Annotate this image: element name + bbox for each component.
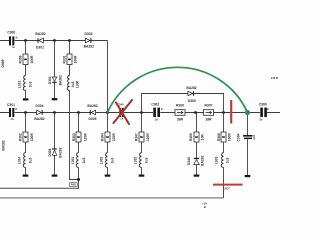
svg-text:1n: 1n bbox=[12, 45, 15, 49]
svg-text:BA282: BA282 bbox=[34, 117, 44, 121]
node junction mid rail x107 (arc start) bbox=[106, 111, 109, 114]
ground (D308 chain) bbox=[52, 155, 58, 176]
resistor R301 bbox=[62, 41, 77, 65]
wire mid rail bbox=[0, 112, 280, 114]
svg-text:L303: L303 bbox=[215, 157, 219, 165]
wire bottom PW1 net bbox=[0, 187, 79, 189]
svg-text:D305: D305 bbox=[89, 117, 97, 121]
node junction top rail x54 bbox=[53, 39, 56, 42]
svg-text:R363: R363 bbox=[72, 133, 76, 141]
svg-text:ACT: ACT bbox=[224, 187, 230, 191]
capacitor C301 bbox=[7, 103, 17, 121]
svg-text:R301: R301 bbox=[62, 55, 66, 63]
svg-text:D999: D999 bbox=[1, 59, 5, 67]
svg-text:R307: R307 bbox=[205, 103, 213, 107]
svg-text:L314: L314 bbox=[18, 157, 22, 165]
svg-text:BA282: BA282 bbox=[84, 45, 94, 49]
svg-text:39R: 39R bbox=[177, 118, 184, 122]
ground (C304 chain) bbox=[245, 139, 251, 177]
svg-text:120R: 120R bbox=[30, 133, 34, 142]
svg-text:D340: D340 bbox=[187, 157, 191, 165]
green highlight arc bbox=[108, 67, 248, 112]
svg-text:K: K bbox=[15, 107, 17, 111]
svg-text:3u3: 3u3 bbox=[71, 81, 75, 87]
ground (L315 chain) bbox=[139, 167, 145, 177]
wire L303 chain down to bottom bus bbox=[223, 167, 225, 198]
diode D305 bbox=[87, 104, 97, 121]
red ACT line annotation bbox=[213, 184, 243, 186]
diode D308 bbox=[48, 113, 62, 158]
node junction top rail x25 bbox=[24, 39, 27, 42]
capacitor C340 (crossed out) bbox=[117, 103, 124, 121]
svg-text:L300: L300 bbox=[75, 81, 79, 89]
inductor L300 bbox=[67, 65, 79, 91]
inductor L302 bbox=[100, 142, 115, 167]
svg-text:C300: C300 bbox=[7, 31, 15, 35]
svg-text:3u3: 3u3 bbox=[82, 157, 86, 163]
ground (L314 chain) bbox=[23, 167, 29, 177]
node junction top rail x69 bbox=[68, 39, 71, 42]
svg-text:R366: R366 bbox=[217, 133, 221, 141]
label box PW1 bbox=[70, 183, 78, 187]
resistor R364 bbox=[101, 113, 116, 143]
capacitor C306 bbox=[259, 102, 269, 121]
svg-text:L301: L301 bbox=[71, 157, 75, 165]
svg-text:+1A: +1A bbox=[202, 202, 207, 206]
inductor L314 bbox=[18, 142, 33, 167]
svg-text:BA282: BA282 bbox=[59, 75, 63, 85]
svg-text:D303: D303 bbox=[85, 32, 93, 36]
node junction mid rail x79 bbox=[77, 111, 80, 114]
svg-text:C301: C301 bbox=[7, 103, 15, 107]
svg-text:C304: C304 bbox=[237, 133, 241, 141]
svg-text:C302: C302 bbox=[151, 103, 159, 107]
svg-text:K: K bbox=[16, 35, 18, 39]
svg-text:L313: L313 bbox=[18, 81, 22, 89]
svg-text:2n: 2n bbox=[259, 118, 262, 122]
wire bypass bridge bbox=[142, 94, 224, 113]
svg-text:1n: 1n bbox=[120, 117, 123, 121]
diode D302 bbox=[48, 41, 62, 86]
wire bottom ACT net bbox=[0, 197, 224, 199]
svg-text:3u3: 3u3 bbox=[145, 157, 149, 163]
svg-text:R365: R365 bbox=[189, 133, 193, 141]
node junction mid rail x141 bbox=[140, 111, 143, 114]
svg-text:BA282: BA282 bbox=[58, 147, 62, 157]
svg-text:K: K bbox=[161, 107, 163, 111]
svg-text:L315: L315 bbox=[134, 157, 138, 165]
node junction mid rail x54 bbox=[53, 111, 56, 114]
resistor R366 bbox=[217, 113, 231, 143]
capacitor C304 bbox=[243, 113, 256, 140]
svg-text:3u3: 3u3 bbox=[28, 81, 32, 87]
svg-text:C306: C306 bbox=[259, 102, 267, 106]
diode D301 bbox=[35, 32, 45, 49]
ground (L302 chain) bbox=[105, 167, 111, 177]
svg-text:D301: D301 bbox=[36, 45, 44, 49]
inductor L313 bbox=[18, 65, 33, 91]
svg-text:D309: D309 bbox=[188, 99, 196, 103]
node junction mid rail x247 (arc end) bbox=[246, 111, 249, 114]
inductor L301 bbox=[71, 142, 86, 167]
wire long vertical x69 down to PW1 corner bbox=[70, 90, 79, 179]
red bar annotation bbox=[230, 100, 232, 124]
resistor R365 bbox=[189, 113, 204, 143]
svg-text:2n2: 2n2 bbox=[252, 135, 256, 140]
svg-text:100R: 100R bbox=[74, 55, 78, 64]
svg-text:D308: D308 bbox=[48, 148, 52, 156]
node junction mid rail x195 bbox=[194, 111, 197, 114]
svg-text:BA282: BA282 bbox=[186, 86, 196, 90]
svg-text:100R: 100R bbox=[30, 55, 34, 64]
ground (D340 chain) bbox=[194, 165, 200, 177]
ground (D302 chain) bbox=[52, 83, 58, 100]
svg-text:BA282: BA282 bbox=[200, 155, 204, 165]
svg-text:120R: 120R bbox=[112, 133, 116, 142]
svg-text:L302: L302 bbox=[100, 157, 104, 165]
svg-text:39R: 39R bbox=[205, 118, 212, 122]
svg-text:BA282: BA282 bbox=[1, 140, 5, 150]
diode D303 bbox=[84, 32, 94, 49]
svg-text:3u3: 3u3 bbox=[226, 157, 230, 163]
svg-text:R347: R347 bbox=[135, 133, 139, 141]
svg-text:R306: R306 bbox=[176, 103, 184, 107]
diode D340 bbox=[187, 142, 204, 166]
svg-text:D304: D304 bbox=[36, 104, 44, 108]
svg-text:2-B D: 2-B D bbox=[271, 76, 278, 80]
svg-text:B: B bbox=[204, 205, 206, 209]
diode D309 bbox=[186, 86, 196, 103]
inductor L303 bbox=[215, 142, 230, 167]
node junction PW1 corner bbox=[77, 178, 80, 181]
wire top rail bbox=[0, 40, 108, 42]
capacitor C302 bbox=[151, 103, 163, 122]
svg-text:3u3: 3u3 bbox=[29, 157, 33, 163]
green arc end dot bbox=[245, 110, 250, 115]
svg-text:120R: 120R bbox=[84, 133, 88, 142]
capacitor C300 bbox=[7, 31, 17, 50]
resistor R309 bbox=[19, 41, 34, 65]
ground (top-left chain) bbox=[23, 90, 29, 100]
node junction mid rail x25 bbox=[24, 111, 27, 114]
resistor R306 bbox=[175, 103, 185, 121]
diode D304 bbox=[34, 104, 44, 121]
svg-text:R362: R362 bbox=[19, 133, 23, 141]
svg-text:100R: 100R bbox=[228, 133, 232, 142]
svg-text:1n: 1n bbox=[10, 117, 13, 121]
resistor R307 bbox=[204, 103, 214, 121]
svg-text:D302: D302 bbox=[48, 76, 52, 84]
svg-text:120R: 120R bbox=[146, 133, 150, 142]
node junction mid rail x223 bbox=[222, 111, 225, 114]
svg-text:10R: 10R bbox=[201, 134, 205, 141]
svg-text:K: K bbox=[267, 107, 269, 111]
svg-text:BA282: BA282 bbox=[87, 104, 97, 108]
resistor R347 bbox=[135, 113, 150, 143]
wire vertical from top rail corner down to mid rail bbox=[107, 41, 109, 113]
red X annotation over C340 bbox=[114, 100, 133, 124]
svg-text:PW1: PW1 bbox=[71, 184, 77, 187]
svg-text:R364: R364 bbox=[101, 133, 105, 141]
svg-text:3u3: 3u3 bbox=[111, 157, 115, 163]
svg-text:1n: 1n bbox=[155, 118, 158, 122]
resistor R363 bbox=[72, 113, 87, 143]
inductor L315 bbox=[134, 142, 149, 167]
wire L301 chain to bottom bbox=[78, 167, 80, 188]
resistor R362 bbox=[19, 113, 34, 143]
svg-text:R309: R309 bbox=[19, 55, 23, 63]
svg-text:BA282: BA282 bbox=[35, 32, 45, 36]
